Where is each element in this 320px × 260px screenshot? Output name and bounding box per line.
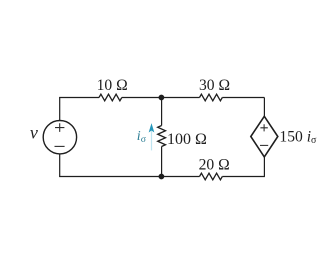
- wire: right rail top vertical down to dependent source: [263, 98, 265, 117]
- value label 10 ohm: [97, 77, 128, 94]
- wire: middle branch bottom from 100ohm resistor to bottom node: [161, 147, 163, 177]
- value label 30 ohm: [199, 77, 230, 94]
- wire: right rail bottom vertical from dependent source: [263, 157, 265, 177]
- voltage source v (independent, circle): [43, 121, 76, 154]
- resistor R 30 ohm: [200, 94, 223, 101]
- node: bottom junction dot: [159, 174, 165, 180]
- svg-text:20 Ω: 20 Ω: [199, 157, 230, 174]
- wire: left rail top vertical: [59, 98, 61, 121]
- node: top junction dot: [159, 95, 165, 101]
- resistor R 20 ohm: [200, 173, 223, 180]
- wire: top-left horizontal from corner to 10ohm resistor: [59, 97, 99, 99]
- wire: top node to 30ohm resistor: [161, 97, 199, 99]
- value label 150 i_sigma: [279, 128, 317, 146]
- svg-text:v: v: [30, 123, 38, 143]
- value label 100 ohm: [167, 131, 207, 148]
- svg-text:150 iσ: 150 iσ: [279, 128, 317, 146]
- svg-text:10 Ω: 10 Ω: [97, 77, 128, 94]
- current arrow i_sigma (cyan, pointing up): [149, 124, 154, 150]
- source label v: [30, 123, 38, 143]
- wire: middle branch top from node to 100ohm resistor: [161, 98, 163, 126]
- wire: bottom-right horizontal from corner to 20ohm resistor: [222, 176, 265, 178]
- resistor R 100 ohm (vertical): [158, 126, 166, 147]
- dependent source U1 diamond 150 i_sigma: [251, 116, 278, 157]
- resistor R 10 ohm: [99, 94, 122, 101]
- wire: bottom node to bottom-left corner: [59, 176, 161, 178]
- svg-text:100 Ω: 100 Ω: [167, 131, 207, 148]
- current label i_sigma (teal): [137, 129, 147, 145]
- wire: 20ohm resistor to bottom node: [161, 176, 199, 178]
- value label 20 ohm: [199, 157, 230, 174]
- svg-text:30 Ω: 30 Ω: [199, 77, 230, 94]
- wire: between 10ohm resistor and top node: [122, 97, 162, 99]
- svg-text:iσ: iσ: [137, 129, 147, 145]
- wire: left rail bottom vertical: [59, 154, 61, 177]
- wire: 30ohm resistor to top-right corner: [222, 97, 264, 99]
